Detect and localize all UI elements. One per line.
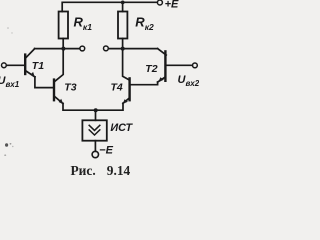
terminal input Uvx1	[2, 63, 7, 68]
svg-text:T1: T1	[32, 60, 44, 72]
transistor T2 emitter	[158, 77, 165, 82]
terminal input Uvx2	[193, 63, 198, 68]
transistor T3 emitter	[55, 97, 63, 104]
svg-text:T2: T2	[145, 63, 157, 75]
wire Rk2 bottom to T4 collector	[123, 39, 129, 80]
transistor T1 collector	[26, 49, 35, 58]
wire input 2 to T2 base	[166, 64, 192, 66]
node junction of Rk2 on +E rail	[121, 1, 125, 5]
transistor T1 emitter	[26, 71, 35, 77]
node left output junction	[61, 47, 65, 51]
svg-text:T4: T4	[111, 82, 123, 94]
svg-text:+E: +E	[165, 0, 179, 10]
transistor T2 base bar	[164, 51, 166, 80]
terminal left output	[80, 46, 85, 51]
wire IST to -E terminal	[94, 141, 96, 152]
wire T1 emitter to T3 base	[35, 77, 53, 88]
svg-text:Рис.: Рис.	[71, 163, 96, 178]
resistor Rk2	[118, 12, 127, 39]
resistor Rk1	[59, 12, 68, 39]
terminal -E	[92, 151, 98, 157]
wire Rk1 bottom to T3 collector	[55, 39, 63, 82]
node common emitter junction	[94, 108, 98, 112]
wire left output line	[35, 48, 80, 50]
transistor T2 collector	[158, 49, 167, 56]
svg-text:−E: −E	[99, 145, 113, 157]
terminal +E	[157, 0, 162, 5]
terminal right output	[104, 46, 109, 51]
node right output junction	[121, 47, 125, 51]
current source chevron 1	[89, 125, 100, 130]
current source IST box	[82, 120, 106, 140]
wire top +E rail	[62, 2, 157, 11]
wire right output line	[109, 48, 158, 50]
svg-text:T3: T3	[64, 82, 76, 94]
svg-text:ИСТ: ИСТ	[110, 122, 133, 134]
current source chevron 2	[89, 130, 100, 135]
wire to current source	[95, 110, 97, 120]
wire input 1 to T1 base	[6, 64, 24, 66]
transistor T1 base bar	[24, 55, 26, 74]
transistor T3 base bar	[53, 80, 55, 101]
wire Rk2 top	[122, 2, 124, 11]
transistor T4 emitter	[123, 98, 129, 103]
wire common emitters	[63, 103, 123, 110]
svg-text:9.14: 9.14	[107, 163, 131, 178]
transistor T4 base bar	[128, 78, 130, 100]
wire T2 emitter to T4 base	[130, 82, 157, 85]
